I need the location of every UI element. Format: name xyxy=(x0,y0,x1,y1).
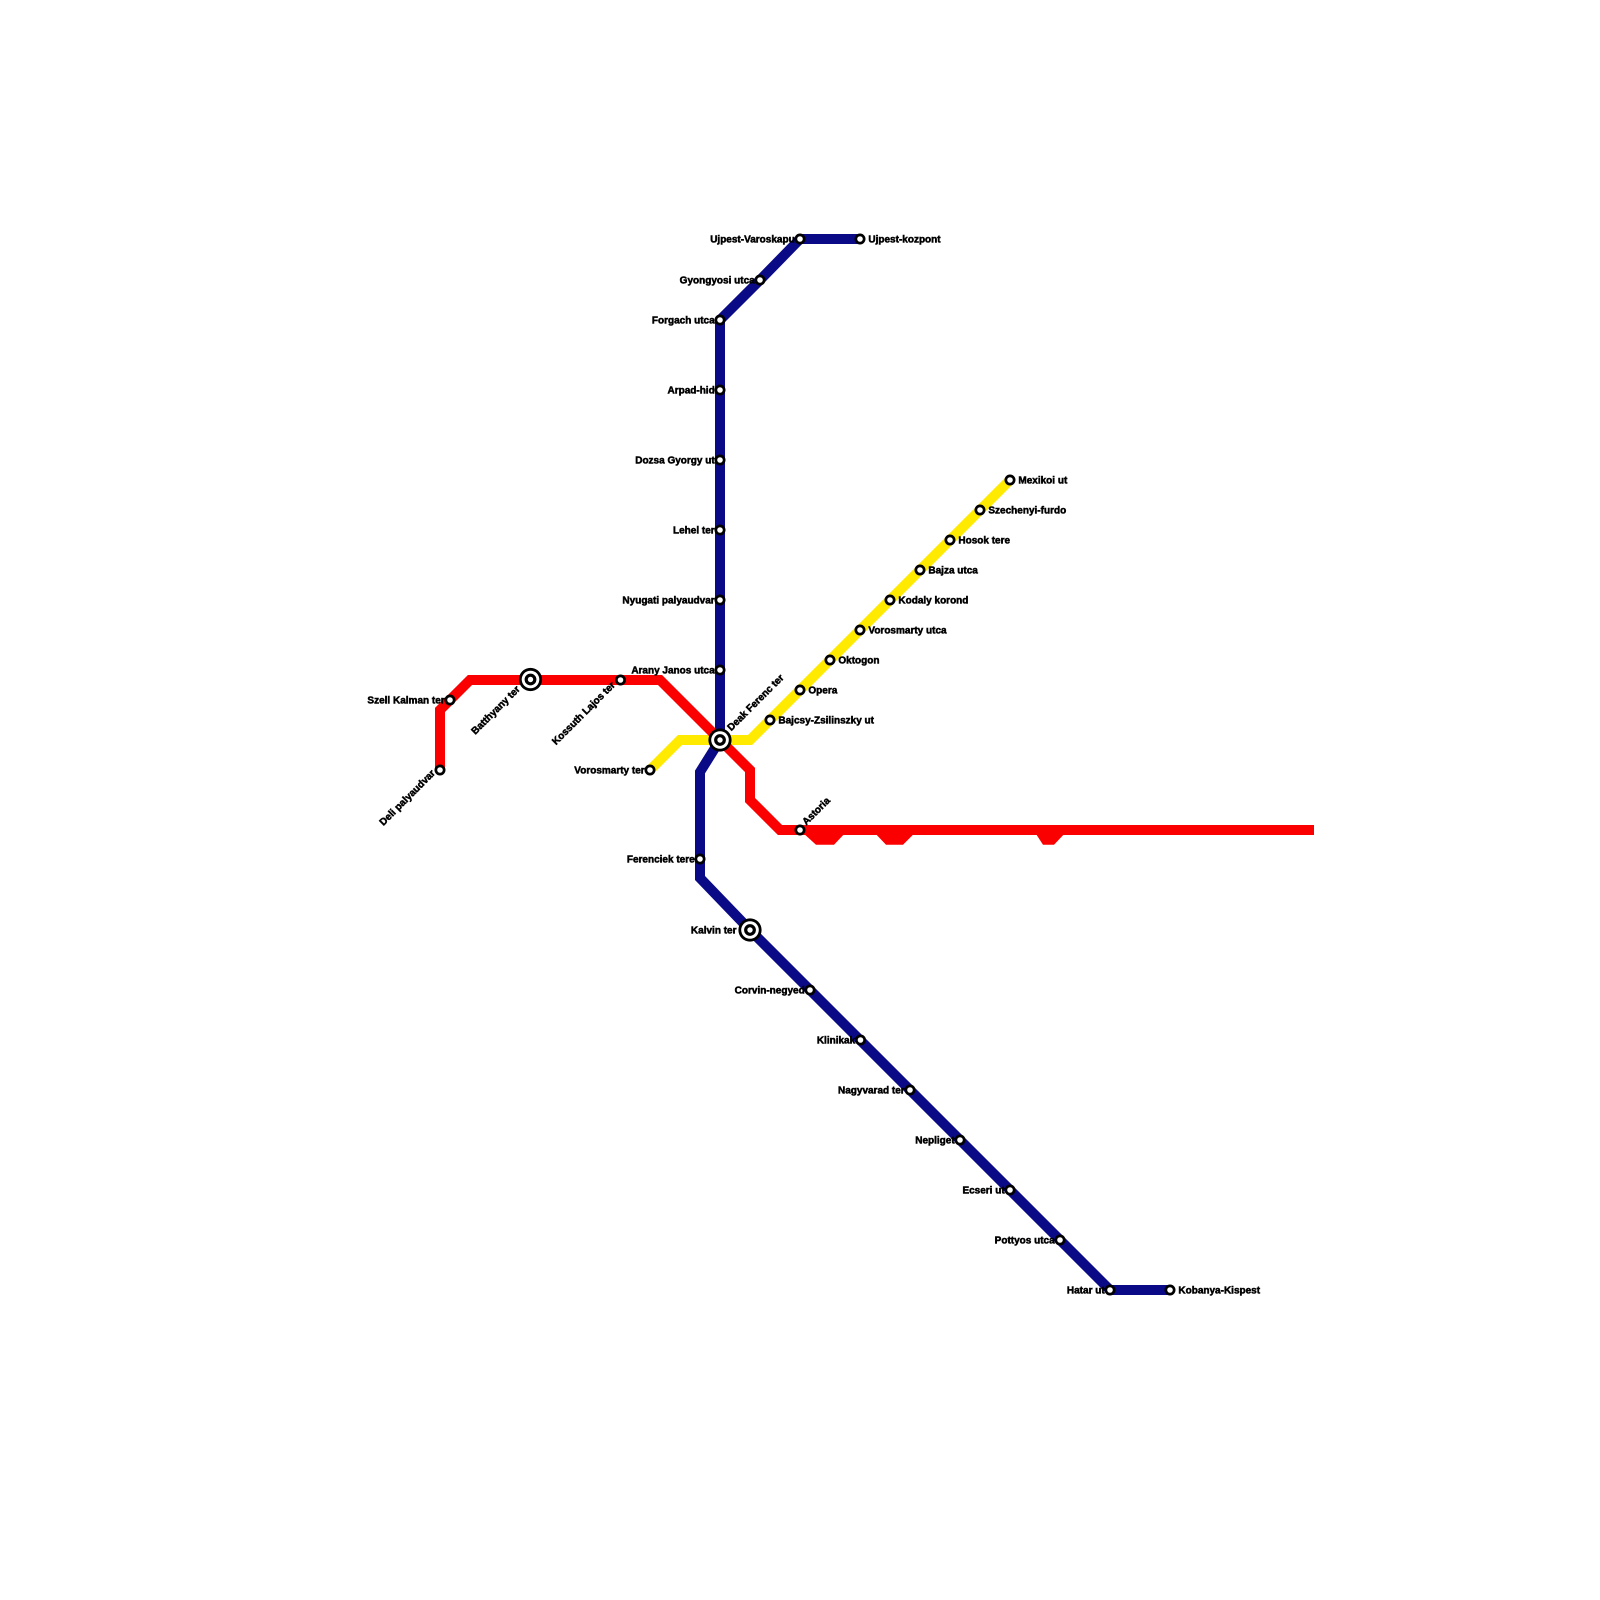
station Mexikoi ut xyxy=(1006,476,1014,484)
svg-text:Hosok tere: Hosok tere xyxy=(958,535,1010,546)
red line bump 1 xyxy=(805,835,844,845)
svg-text:Oktogon: Oktogon xyxy=(838,655,879,666)
station Bajza utca xyxy=(916,566,924,574)
svg-text:Lehel ter: Lehel ter xyxy=(673,525,715,536)
svg-text:Hatar ut: Hatar ut xyxy=(1067,1285,1105,1296)
svg-text:Bajza utca: Bajza utca xyxy=(928,565,978,576)
svg-text:Corvin-negyed: Corvin-negyed xyxy=(735,985,805,996)
red line bump 3 xyxy=(1037,835,1064,845)
station Opera xyxy=(796,686,804,694)
svg-text:Ujpest-kozpont: Ujpest-kozpont xyxy=(868,234,941,245)
station Pottyos utca xyxy=(1056,1236,1064,1244)
svg-text:Vorosmarty ter: Vorosmarty ter xyxy=(574,765,645,776)
svg-text:Vorosmarty utca: Vorosmarty utca xyxy=(868,625,947,636)
station Kodaly korond xyxy=(886,596,894,604)
red line bump 2 xyxy=(877,835,914,845)
svg-text:Dozsa Gyorgy ut: Dozsa Gyorgy ut xyxy=(635,455,715,466)
station Ecseri ut xyxy=(1006,1186,1014,1194)
station Hatar ut xyxy=(1106,1286,1114,1294)
station Corvin-negyed xyxy=(806,986,814,994)
station Ujpest-Varoskapu xyxy=(796,235,804,243)
station Hosok tere xyxy=(946,536,954,544)
interchange Kalvin ter xyxy=(738,918,761,941)
station Dozsa Gyorgy ut xyxy=(716,456,724,464)
svg-text:Ujpest-Varoskapu: Ujpest-Varoskapu xyxy=(710,234,794,245)
svg-text:Nagyvarad ter: Nagyvarad ter xyxy=(838,1085,905,1096)
station Kossuth Lajos ter xyxy=(616,676,624,684)
svg-text:Arany Janos utca: Arany Janos utca xyxy=(631,665,715,676)
station Szell Kalman ter xyxy=(446,696,454,704)
station Nepliget xyxy=(956,1136,964,1144)
svg-text:Ecseri ut: Ecseri ut xyxy=(962,1185,1005,1196)
interchange Deak Ferenc ter xyxy=(708,728,731,751)
station Bajcsy-Zsilinszky ut xyxy=(766,716,774,724)
station Nagyvarad ter xyxy=(906,1086,914,1094)
svg-text:Opera: Opera xyxy=(808,685,837,696)
station Vorosmarty ter xyxy=(646,766,654,774)
svg-text:Arpad-hid: Arpad-hid xyxy=(667,385,714,396)
station Oktogon xyxy=(826,656,834,664)
station Vorosmarty utca xyxy=(856,626,864,634)
station Gyongyosi utca xyxy=(756,276,764,284)
blue line M3 xyxy=(700,239,1170,1290)
svg-text:Ferenciek tere: Ferenciek tere xyxy=(627,854,695,865)
svg-text:Nyugati palyaudvar: Nyugati palyaudvar xyxy=(622,595,714,606)
svg-text:Kodaly korond: Kodaly korond xyxy=(898,595,968,606)
svg-text:Klinikak: Klinikak xyxy=(817,1035,856,1046)
red line M2 xyxy=(440,680,1314,830)
station Arany Janos utca xyxy=(716,666,724,674)
svg-text:Kobanya-Kispest: Kobanya-Kispest xyxy=(1178,1285,1260,1296)
svg-text:Nepliget: Nepliget xyxy=(915,1135,955,1146)
svg-text:Forgach utca: Forgach utca xyxy=(652,315,715,326)
svg-text:Mexikoi ut: Mexikoi ut xyxy=(1018,475,1068,486)
interchange Batthyany ter xyxy=(519,668,542,691)
station Lehel ter xyxy=(716,526,724,534)
station Deli palyaudvar xyxy=(436,766,444,774)
yellow line M1 xyxy=(650,480,1010,770)
svg-text:Kalvin ter: Kalvin ter xyxy=(691,925,737,936)
station Ferenciek tere xyxy=(696,855,704,863)
station Forgach utca xyxy=(716,316,724,324)
svg-text:Szechenyi-furdo: Szechenyi-furdo xyxy=(988,505,1066,516)
svg-text:Szell Kalman ter: Szell Kalman ter xyxy=(367,695,444,706)
station Klinikak xyxy=(856,1036,864,1044)
station Nyugati palyaudvar xyxy=(716,596,724,604)
station Kobanya-Kispest xyxy=(1166,1286,1174,1294)
svg-text:Gyongyosi utca: Gyongyosi utca xyxy=(680,275,755,286)
svg-text:Bajcsy-Zsilinszky ut: Bajcsy-Zsilinszky ut xyxy=(778,715,874,726)
svg-text:Pottyos utca: Pottyos utca xyxy=(995,1235,1055,1246)
station Arpad-hid xyxy=(716,386,724,394)
station Szechenyi-furdo xyxy=(976,506,984,514)
station Astoria xyxy=(796,826,804,834)
station Ujpest-kozpont xyxy=(856,235,864,243)
